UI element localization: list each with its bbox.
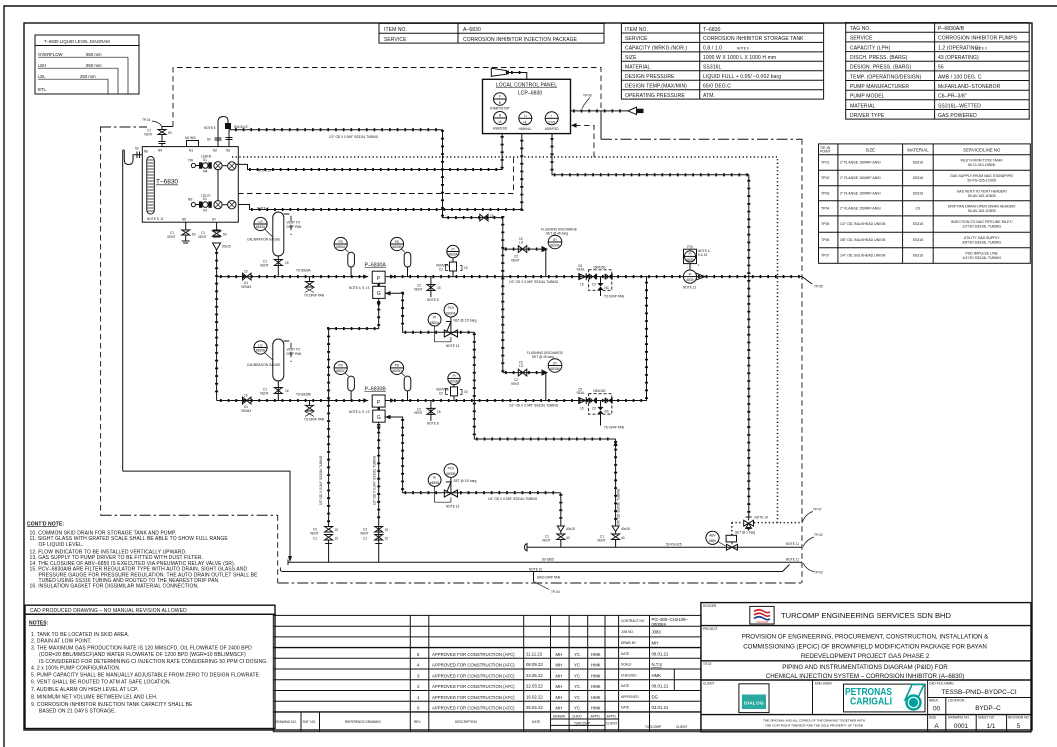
svg-text:1/2": 1/2" (243, 125, 249, 129)
inlet line TP-01 dashed (162, 68, 601, 140)
svg-text:MATERIAL: MATERIAL (907, 148, 929, 153)
svg-text:BTL.: BTL. (38, 87, 47, 92)
svg-text:GAS VENT-TO VENT HEADER/: GAS VENT-TO VENT HEADER/ (957, 189, 1007, 193)
svg-text:50: 50 (135, 147, 139, 151)
dashed signal into LCP right (571, 123, 594, 157)
svg-text:GAS POWERED: GAS POWERED (938, 113, 977, 119)
svg-text:3: 3 (417, 674, 420, 679)
skid drip pan outline (280, 565, 789, 594)
svg-text:NC: NC (605, 410, 610, 414)
svg-text:0.8 / 1.0: 0.8 / 1.0 (703, 46, 722, 52)
svg-text:DRAWING NO.: DRAWING NO. (948, 716, 970, 720)
svg-text:65/0 DEG.C: 65/0 DEG.C (703, 84, 731, 90)
svg-text:1/2" OD X 0.049" SS316L TUBING: 1/2" OD X 0.049" SS316L TUBING (329, 135, 379, 139)
svg-text:APP'D: APP'D (607, 715, 617, 719)
calibration gauge A branch (260, 212, 289, 277)
svg-text:50: 50 (192, 233, 196, 237)
suction B isolation valve (241, 394, 251, 413)
svg-text:ASR/PSD: ASR/PSD (545, 127, 560, 131)
svg-text:CHK'D: CHK'D (572, 715, 582, 719)
svg-text:B: B (499, 114, 501, 118)
signal dashed line level to junction (238, 157, 514, 194)
svg-text:SET @ 45 barg: SET @ 45 barg (546, 232, 568, 236)
svg-text:NOTE 4, 9, 13: NOTE 4, 9, 13 (349, 410, 370, 414)
svg-text:SERVICE: SERVICE (625, 36, 648, 42)
svg-text:50-PG-025: 50-PG-025 (666, 543, 682, 547)
suction A isolation valve (241, 270, 251, 289)
svg-text:NOTE 10: NOTE 10 (529, 567, 543, 571)
svg-text:SERVICE/LINE NO: SERVICE/LINE NO (963, 148, 1001, 153)
svg-text:1/1: 1/1 (987, 723, 996, 730)
svg-text:SIZE: SIZE (625, 55, 637, 61)
svg-text:MH: MH (556, 652, 563, 657)
svg-text:LEL: LEL (38, 74, 46, 79)
svg-text:LI: LI (524, 114, 527, 118)
svg-text:N4: N4 (158, 149, 162, 153)
svg-text:TP-07: TP-07 (813, 508, 822, 512)
svg-text:NOTE 4, 9, 13: NOTE 4, 9, 13 (349, 286, 370, 290)
dialog logo (739, 684, 769, 713)
svg-text:1/2" OD X 0.049" SS316L TUBING: 1/2" OD X 0.049" SS316L TUBING (319, 455, 323, 505)
discharge B drain valve (414, 401, 441, 426)
flushing relief SY-6830A (503, 228, 577, 277)
svg-text:6830B: 6830B (550, 367, 559, 371)
svg-text:16.02.22: 16.02.22 (526, 694, 543, 699)
revision table (273, 615, 701, 731)
svg-text:C1: C1 (313, 537, 317, 541)
svg-text:TO DRIP PAN: TO DRIP PAN (304, 294, 325, 298)
svg-text:6830A: 6830A (256, 225, 266, 229)
svg-text:FI: FI (689, 252, 692, 256)
svg-text:08.09.22: 08.09.22 (526, 662, 543, 667)
svg-text:40: 40 (566, 536, 570, 540)
svg-text:F: F (499, 95, 501, 99)
pneumatic signal LCP to relay valve (552, 134, 749, 517)
TP-03 tag (803, 563, 823, 575)
svg-text:TP05: TP05 (821, 222, 829, 226)
svg-text:NOTE 12: NOTE 12 (683, 286, 697, 290)
pump B dampener discharge (390, 361, 410, 400)
svg-text:T–6830 LIQUID LEVEL DIAGRAM: T–6830 LIQUID LEVEL DIAGRAM (44, 39, 110, 44)
test connection TO-6830B (296, 392, 325, 421)
svg-text:6830D: 6830D (392, 369, 402, 373)
svg-text:PROVISION OF ENGINEERING, P: PROVISION OF ENGINEERING, PROCUREMENT, C… (742, 634, 989, 641)
svg-text:MH: MH (556, 706, 563, 711)
vent eductor above LCP (491, 68, 527, 79)
svg-text:TO-6830B: TO-6830B (296, 392, 311, 396)
svg-text:TP-06: TP-06 (583, 94, 592, 98)
svg-text:MH: MH (556, 674, 563, 679)
svg-text:BYDP–C: BYDP–C (975, 705, 1001, 712)
PI-6830B on discharge B (436, 372, 468, 400)
check valve discharge B (577, 388, 587, 411)
svg-text:03.01.21: 03.01.21 (652, 705, 669, 710)
gas riser B from supply (542, 493, 575, 548)
svg-text:VENT: VENT (511, 382, 520, 386)
svg-text:ESD: ESD (548, 120, 555, 124)
svg-text:L: L (698, 263, 700, 267)
suction header from tank N7 (216, 250, 218, 401)
LCP switch LAH (519, 112, 533, 131)
svg-text:1/2" OD X 0.049" SS316L TUBING: 1/2" OD X 0.049" SS316L TUBING (509, 280, 559, 284)
pump A suction line (217, 274, 369, 278)
svg-text:5: 5 (1017, 723, 1021, 730)
recycle line from N3 to return header (226, 125, 503, 373)
svg-text:CS: CS (915, 206, 921, 210)
svg-text:N3: N3 (226, 149, 230, 153)
svg-text:CLIENT: CLIENT (703, 682, 714, 686)
svg-text:3/8"OD SS316L TUBING: 3/8"OD SS316L TUBING (962, 241, 1001, 245)
svg-text:PD: PD (338, 240, 343, 244)
svg-text:40x15: 40x15 (566, 527, 575, 531)
svg-text:TP-01: TP-01 (142, 118, 151, 122)
svg-text:SET @ 3.5 barg: SET @ 3.5 barg (454, 319, 477, 323)
svg-text:A: A (934, 723, 939, 730)
svg-text:000069: 000069 (652, 622, 667, 627)
svg-text:PIPING AND INSTRUMENTATIONS: PIPING AND INSTRUMENTATIONS DIAGRAM (P&I… (782, 664, 948, 671)
svg-text:6830: 6830 (686, 278, 693, 282)
svg-text:LIQUID FULL + 0.05/ –0.002 bar: LIQUID FULL + 0.05/ –0.002 barg (703, 74, 781, 80)
svg-text:1/4"OD SS316L TUBING: 1/4"OD SS316L TUBING (962, 256, 1001, 260)
svg-text:(COR=20 BBL/MMSCF)AND WATER FL: (COR=20 BBL/MMSCF)AND WATER FLOWRATE OF … (39, 652, 246, 658)
svg-text:4: 4 (417, 663, 420, 668)
pump A dampener suction (334, 237, 354, 276)
svg-text:FQI: FQI (687, 245, 692, 249)
check valve discharge A (577, 264, 587, 287)
svg-text:S1: S1 (203, 158, 207, 162)
svg-text:REV.: REV. (414, 720, 421, 724)
svg-text:CLIENT: CLIENT (606, 721, 617, 725)
svg-text:CLIENT: CLIENT (676, 725, 687, 729)
pump table P-6830A/B (846, 23, 1029, 120)
svg-text:TP-04: TP-04 (551, 590, 560, 594)
svg-text:TESSB–PNID–BYDPC–CI: TESSB–PNID–BYDPC–CI (941, 689, 1017, 696)
svg-text:15: 15 (437, 286, 441, 290)
svg-text:VENT: VENT (167, 235, 176, 239)
svg-text:CARIGALI: CARIGALI (850, 697, 892, 708)
svg-text:50: 50 (207, 138, 211, 142)
LG-6830B bubble (247, 341, 280, 367)
svg-text:6830B: 6830B (446, 472, 455, 476)
svg-text:6830A: 6830A (446, 311, 456, 315)
svg-text:09.01.21: 09.01.21 (652, 652, 669, 657)
svg-text:50-CI-010-19B0D: 50-CI-010-19B0D (968, 163, 996, 167)
notes box (25, 614, 275, 728)
svg-text:1/2" OD X 0.049" SS316L TUBING: 1/2" OD X 0.049" SS316L TUBING (509, 404, 559, 408)
tank nozzle labels (144, 149, 230, 222)
pump B dampener suction (334, 361, 354, 400)
petronas carigali logo (844, 684, 926, 712)
utility gas supply TP-06 arrow (571, 94, 644, 115)
svg-text:1/4" OD X 0.035" SS316L TUBING: 1/4" OD X 0.035" SS316L TUBING (488, 497, 538, 501)
svg-text:S4: S4 (203, 209, 207, 213)
svg-text:SS316: SS316 (913, 222, 924, 226)
svg-text:YC: YC (574, 706, 580, 711)
pneumatic signal LSH to LCP (236, 134, 502, 173)
svg-text:2" FLANGE 150#RF ANSI: 2" FLANGE 150#RF ANSI (840, 191, 881, 195)
svg-text:3/8" OD, BULKHEAD UNION: 3/8" OD, BULKHEAD UNION (840, 238, 886, 242)
svg-text:MATERIAL: MATERIAL (625, 65, 651, 71)
svg-text:2. DRAIN AT LOW POINT.: 2. DRAIN AT LOW POINT. (31, 639, 92, 645)
return line valve (480, 214, 494, 221)
svg-text:VEN43: VEN43 (241, 409, 251, 413)
svg-text:SS316L: SS316L (703, 65, 722, 71)
svg-text:SEAL: SEAL (577, 391, 585, 395)
svg-text:ITEM NO.: ITEM NO. (625, 27, 648, 33)
svg-text:VENT: VENT (198, 235, 207, 239)
svg-text:250 mm: 250 mm (80, 74, 96, 79)
svg-text:C1: C1 (363, 537, 367, 541)
svg-text:END-USER: END-USER (815, 682, 832, 686)
svg-text:COMMISSIONING (EPCIC) OF BR: COMMISSIONING (EPCIC) OF BROWNFIELD MODI… (743, 644, 987, 651)
svg-text:YC: YC (574, 674, 580, 679)
level instrument cluster row1 LSH (188, 155, 236, 174)
svg-text:DRIVER TYPE: DRIVER TYPE (850, 113, 885, 119)
svg-text:50: 50 (223, 233, 227, 237)
svg-text:SCALE: SCALE (621, 663, 631, 667)
svg-text:15: 15 (580, 283, 584, 287)
svg-text:NOTE 3: NOTE 3 (975, 46, 987, 50)
pump A dampener discharge (390, 237, 410, 276)
svg-text:OPERATING PRESSURE: OPERATING PRESSURE (625, 93, 685, 99)
svg-text:FI: FI (689, 272, 692, 276)
drain header to TP-03 (288, 557, 802, 565)
svg-text:TURCOMP: TURCOMP (645, 725, 661, 729)
svg-text:YC: YC (574, 684, 580, 689)
svg-text:1/2"OD SS316L TUBING: 1/2"OD SS316L TUBING (962, 225, 1001, 229)
svg-text:22.03.22: 22.03.22 (526, 684, 543, 689)
suction strainer (213, 243, 231, 250)
svg-text:NS: NS (188, 198, 192, 202)
svg-text:15: 15 (490, 214, 494, 218)
svg-text:SIZE: SIZE (865, 148, 875, 153)
LCP switch ASR/PSD (545, 112, 560, 131)
svg-text:IA: IA (498, 120, 502, 124)
svg-text:15: 15 (464, 266, 468, 270)
svg-text:TW: TW (188, 159, 193, 163)
svg-text:APPROVED FOR CONSTRUCTION (AFC: APPROVED FOR CONSTRUCTION (AFC) (432, 652, 515, 657)
svg-text:CONTRACT NO: CONTRACT NO (621, 619, 645, 623)
svg-text:VENT: VENT (542, 538, 551, 542)
svg-text:VENT: VENT (260, 391, 269, 395)
svg-text:SS316: SS316 (913, 176, 924, 180)
svg-text:15: 15 (335, 537, 339, 541)
svg-text:N2: N2 (213, 149, 217, 153)
pump B suction line (217, 398, 369, 402)
svg-text:PD: PD (395, 240, 400, 244)
svg-text:P–6830B: P–6830B (365, 386, 387, 392)
svg-text:DRAWING NO.: DRAWING NO. (275, 720, 297, 724)
svg-text:N1: N1 (189, 149, 193, 153)
svg-text:TO-6830A: TO-6830A (296, 269, 312, 273)
svg-text:50-AV-163-1D505: 50-AV-163-1D505 (968, 194, 996, 198)
svg-text:5. PUMP CAPACITY SHALL BE MAN: 5. PUMP CAPACITY SHALL BE MANUALLY ADJUS… (31, 673, 261, 679)
svg-text:VEN43: VEN43 (241, 285, 251, 289)
svg-text:DATE: DATE (532, 720, 540, 724)
svg-text:40: 40 (621, 536, 625, 540)
svg-text:LO: LO (519, 241, 524, 245)
svg-text:2" FLANGE 150#RF ANSI: 2" FLANGE 150#RF ANSI (840, 206, 881, 210)
svg-text:15: 15 (580, 406, 584, 410)
svg-text:SET @ 45 barg: SET @ 45 barg (532, 355, 554, 359)
svg-text:SET @ 3.5 barg: SET @ 3.5 barg (454, 479, 477, 483)
svg-text:SERVICE: SERVICE (384, 37, 407, 43)
svg-text:15: 15 (519, 361, 523, 365)
svg-text:TURCOMP ENGINEERING SERVICES: TURCOMP ENGINEERING SERVICES SDN BHD (781, 611, 952, 620)
svg-text:1000 W X 1000 L X 1000 H mm: 1000 W X 1000 L X 1000 H mm (703, 55, 776, 61)
svg-text:9 & 15: 9 & 15 (698, 253, 707, 257)
tank overflow left with loop seal (123, 147, 143, 472)
LCP hand switch start/stop (490, 93, 510, 111)
svg-text:ASR/ESD: ASR/ESD (493, 127, 508, 131)
svg-text:PROJECT: PROJECT (703, 627, 718, 631)
flow meter FQI-6830 (683, 245, 711, 290)
svg-text:C2: C2 (439, 391, 443, 395)
svg-text:00: 00 (933, 706, 941, 713)
svg-text:SHT. NO.: SHT. NO. (303, 720, 317, 724)
item table A-6830 (379, 23, 604, 43)
svg-text:APPROVED FOR CONSTRUCTION (AFC: APPROVED FOR CONSTRUCTION (AFC) (432, 674, 515, 679)
svg-text:24.05.22: 24.05.22 (526, 673, 543, 678)
svg-text:HMK: HMK (591, 684, 601, 689)
svg-text:LG: LG (258, 343, 263, 347)
svg-text:ABV: ABV (709, 534, 716, 538)
standpipe between level switches (217, 170, 219, 201)
svg-text:SY: SY (553, 361, 558, 365)
svg-text:START/STOP: START/STOP (490, 107, 510, 111)
svg-text:C6–PR–3/8": C6–PR–3/8" (938, 94, 967, 100)
PCV-6830A valve (428, 303, 476, 348)
svg-text:PCV: PCV (448, 306, 455, 310)
svg-text:BASED ON 21 DAYS STORAGE.: BASED ON 21 DAYS STORAGE. (39, 709, 116, 715)
svg-text:VENT: VENT (144, 133, 153, 137)
svg-text:SERVICE: SERVICE (850, 36, 873, 42)
svg-text:56: 56 (938, 65, 944, 71)
svg-text:4. 2 x 100% PUMP CONFIGURATIO: 4. 2 x 100% PUMP CONFIGURATION. (31, 666, 121, 672)
svg-text:15: 15 (437, 410, 441, 414)
svg-text:1. TANK TO BE LOCATED IN SKID: 1. TANK TO BE LOCATED IN SKID AREA. (31, 632, 129, 638)
svg-text:J083: J083 (652, 630, 662, 635)
svg-text:TURCOMP: TURCOMP (574, 721, 590, 725)
svg-text:B: B (499, 101, 501, 105)
calibration gauge B vent dashed (284, 341, 302, 362)
svg-text:DESIGN PRESSURE: DESIGN PRESSURE (625, 74, 675, 80)
svg-text:NOTE 6: NOTE 6 (204, 126, 216, 130)
TP-07 tag (802, 508, 822, 523)
svg-text:VENT TO: VENT TO (287, 221, 301, 225)
svg-text:S1: S1 (203, 197, 207, 201)
svg-text:TP03: TP03 (821, 191, 829, 195)
svg-text:SEAL: SEAL (577, 267, 585, 271)
svg-text:15: 15 (385, 528, 389, 532)
svg-text:C2: C2 (592, 406, 596, 410)
svg-text:7. AUDIBLE ALARM ON HIGH LEVE: 7. AUDIBLE ALARM ON HIGH LEVEL AT LCP. (31, 687, 138, 693)
local control panel box (483, 79, 571, 133)
svg-text:NOTE 13: NOTE 13 (446, 344, 460, 348)
svg-text:HL: HL (523, 120, 527, 124)
svg-text:DRIP PAN: DRIP PAN (287, 225, 302, 229)
svg-text:APPROVED FOR CONSTRUCTION (AFC: APPROVED FOR CONSTRUCTION (AFC) (432, 684, 515, 689)
svg-text:2" FLANGE 150#RF ANSI: 2" FLANGE 150#RF ANSI (840, 161, 881, 165)
svg-text:50-AV-163-1D505: 50-AV-163-1D505 (968, 209, 996, 213)
svg-text:16. INSULATION GASKET FOR DIS: 16. INSULATION GASKET FOR DISSIMILAR MAT… (30, 584, 199, 590)
svg-text:1: 1 (417, 695, 420, 700)
svg-text:15: 15 (285, 261, 289, 265)
svg-text:NOTE 14: NOTE 14 (755, 516, 769, 520)
svg-text:TP07: TP07 (821, 254, 829, 258)
svg-text:DRIP PAN DRAIN-OPEN DRAIN HEAD: DRIP PAN DRAIN-OPEN DRAIN HEADER/ (948, 204, 1016, 208)
svg-text:50-PG-025-1C905: 50-PG-025-1C905 (967, 179, 996, 183)
svg-text:REDEVELOPMENT PROJECT GAS P: REDEVELOPMENT PROJECT GAS PHASE 2 (801, 653, 930, 660)
svg-text:DRAWN: DRAWN (553, 715, 566, 719)
svg-text:TP-05: TP-05 (814, 285, 823, 289)
PCV-6830B valve (428, 464, 476, 509)
svg-text:SIZE: SIZE (929, 716, 936, 720)
ABV-6850 valve (706, 531, 756, 551)
cad file name and numbers (933, 689, 1021, 730)
svg-text:DATE: DATE (621, 684, 629, 688)
revision rows text (275, 652, 687, 730)
svg-text:950 mm: 950 mm (86, 52, 102, 57)
svg-text:TURCOMP: TURCOMP (755, 620, 768, 624)
item table T-6830 storage tank (621, 24, 823, 100)
svg-text:TITLE: TITLE (703, 662, 712, 666)
svg-text:PI: PI (452, 374, 455, 378)
svg-text:DATE: DATE (621, 706, 629, 710)
svg-text:MH: MH (556, 695, 563, 700)
svg-text:T–6830: T–6830 (156, 179, 178, 186)
svg-text:9. CORROSION INHIBITOR INJECT: 9. CORROSION INHIBITOR INJECTION TANK CA… (31, 702, 193, 708)
svg-text:ITEM NO.: ITEM NO. (384, 27, 407, 33)
gas supply header from TP-02 (525, 542, 802, 551)
svg-text:T–6830: T–6830 (703, 27, 721, 33)
svg-text:G: G (377, 291, 381, 297)
svg-text:09.01.21: 09.01.21 (652, 684, 669, 689)
svg-text:DRWN BY: DRWN BY (621, 641, 637, 645)
svg-text:CORROSION INHIBITOR STORAGE TA: CORROSION INHIBITOR STORAGE TANK (703, 36, 804, 42)
svg-text:1/2" OD, BULKHEAD UNION: 1/2" OD, BULKHEAD UNION (840, 222, 886, 226)
svg-text:A–6830: A–6830 (463, 27, 481, 33)
svg-text:SS316: SS316 (913, 254, 924, 258)
svg-text:IS CONSIDERED FOR DETERMINING: IS CONSIDERED FOR DETERMINING CI INJECTI… (39, 659, 268, 665)
svg-text:PD: PD (395, 364, 400, 368)
vent gooseneck N2 (204, 117, 231, 147)
svg-text:G: G (377, 415, 381, 421)
svg-text:TAG NO.: TAG NO. (850, 26, 871, 32)
svg-text:50: 50 (168, 131, 172, 135)
svg-text:NOTE 8: NOTE 8 (427, 298, 439, 302)
svg-text:M1 960: M1 960 (185, 136, 196, 140)
svg-text:15: 15 (244, 270, 248, 274)
svg-text:P: P (377, 400, 381, 406)
TP-05 exit (802, 277, 823, 289)
svg-text:15: 15 (335, 528, 339, 532)
title block (701, 603, 1031, 732)
calibration gauge A vent dashed (284, 214, 302, 235)
svg-text:NOTE 13: NOTE 13 (446, 504, 460, 508)
discharge A drain valve (414, 277, 441, 302)
svg-text:VENT: VENT (414, 411, 423, 415)
svg-text:APPROVED FOR CONSTRUCTION (AFC: APPROVED FOR CONSTRUCTION (AFC) (432, 663, 515, 668)
level instrument cluster row2 LSL (188, 194, 236, 213)
svg-text:VENT: VENT (260, 263, 269, 267)
TP-02 tag (803, 533, 823, 547)
svg-text:DESCRIPTION: DESCRIPTION (455, 720, 477, 724)
title text (766, 664, 964, 680)
svg-text:SS316L–WETTED: SS316L–WETTED (938, 103, 981, 109)
svg-text:1/4" OD, BULKHEAD UNION: 1/4" OD, BULKHEAD UNION (840, 254, 886, 258)
svg-text:M4: M4 (203, 170, 208, 174)
